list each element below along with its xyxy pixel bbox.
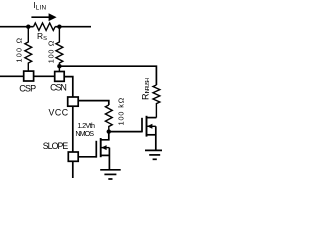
node junction top-left	[26, 25, 30, 29]
wire VCC to SLOPE bus	[72, 106, 74, 152]
wire gate net to Q2 gate	[109, 131, 142, 133]
svg-text:NMOS: NMOS	[75, 129, 94, 138]
svg-text:VCC: VCC	[49, 107, 69, 117]
transistor Q1 gate wire from SLOPE	[78, 156, 96, 158]
svg-text:CSP: CSP	[19, 84, 36, 94]
transistor Q1 drain wire	[101, 132, 109, 140]
transistor Q1 body arrow	[101, 145, 110, 150]
resistor RINRUSH	[153, 85, 160, 118]
wire CSN to VCC bus	[64, 77, 73, 97]
svg-text:100 Ω: 100 Ω	[47, 40, 56, 63]
wire top rail left	[0, 26, 34, 28]
resistor 100 ohm right	[56, 27, 63, 72]
transistor Q2 source stub	[147, 134, 156, 136]
transistor Q1 channel bar	[100, 138, 102, 157]
svg-text:100 Ω: 100 Ω	[14, 37, 23, 62]
svg-text:CSN: CSN	[50, 83, 67, 93]
wire top rail right	[55, 26, 91, 28]
transistor Q2 gate bar	[141, 118, 143, 133]
ground right	[145, 150, 165, 159]
transistor Q2 drain wire	[147, 117, 157, 119]
wire CSN-net to RINRUSH	[59, 66, 156, 85]
node junction top-right	[57, 25, 61, 29]
wire VCC to 100k resistor	[78, 101, 109, 105]
transistor Q1 source stub	[101, 154, 110, 156]
resistor 100 kohm	[105, 105, 112, 132]
wire pin rail to CSP	[0, 75, 24, 77]
current arrow ILIN	[31, 13, 56, 21]
transistor Q2 channel bar	[146, 116, 148, 137]
ground left	[100, 170, 121, 179]
node junction gate net	[107, 129, 111, 133]
svg-text:ILIN: ILIN	[33, 0, 46, 12]
transistor Q2 body arrow	[147, 124, 156, 129]
pin box CSP	[24, 71, 34, 81]
resistor RS	[34, 23, 56, 30]
resistor 100 ohm left	[25, 27, 32, 71]
transistor Q1 gate bar	[95, 141, 97, 158]
pin box SLOPE	[68, 152, 78, 161]
pin box VCC	[68, 97, 79, 106]
svg-text:SLOPE: SLOPE	[43, 141, 69, 151]
pin box CSN	[55, 72, 64, 82]
wire Q1 source to ground	[108, 148, 110, 169]
wire CSP to CSN	[34, 75, 55, 77]
svg-text:100 kΩ: 100 kΩ	[116, 97, 125, 125]
node junction CSN-net	[57, 64, 61, 68]
svg-text:RS: RS	[37, 31, 47, 42]
wire below SLOPE	[72, 161, 74, 178]
wire Q2 source to ground	[155, 126, 157, 149]
svg-text:RINRUSH: RINRUSH	[140, 78, 150, 100]
